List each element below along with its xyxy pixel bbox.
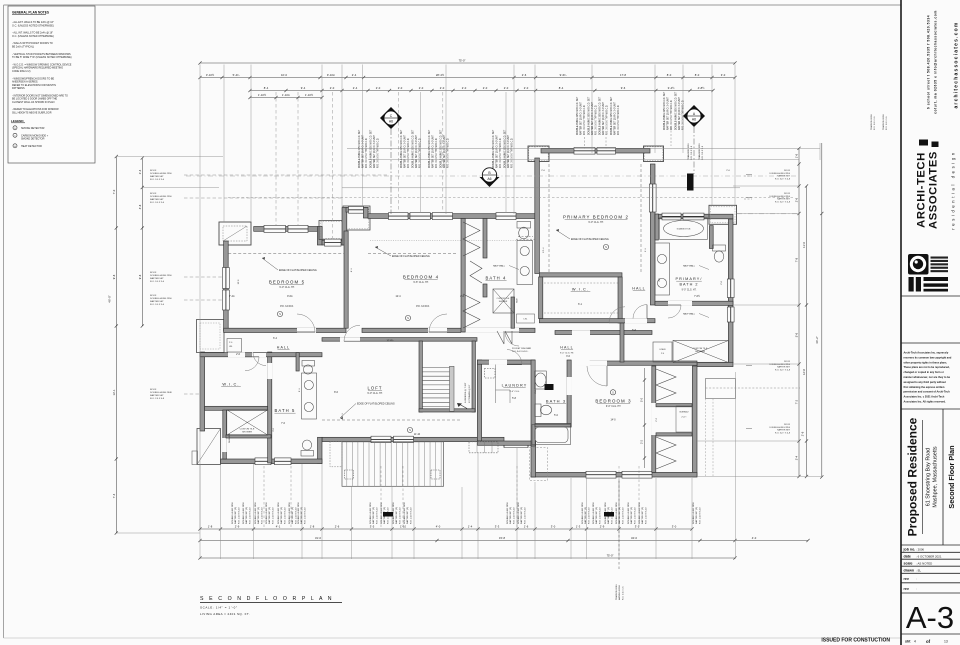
- window: [275, 458, 292, 465]
- bedroom 5 west wall: [224, 241, 229, 331]
- bath5/wic south wall: [221, 459, 323, 464]
- hall south / laundry north wall: [477, 360, 535, 364]
- svg-text:3'-0: 3'-0: [721, 73, 726, 77]
- svg-text:2'-0: 2'-0: [330, 86, 335, 90]
- svg-text:POCKET 3050 PAIR: POCKET 3050 PAIR: [512, 347, 531, 350]
- svg-text:RAFTER SET (2) R.O. 3-0 UNIT: RAFTER SET (2) R.O. 3-0 UNIT: [579, 101, 582, 135]
- left dim line 2: [141, 158, 143, 326]
- svg-text:2'-6: 2'-6: [522, 73, 527, 77]
- closet shelf top: [656, 404, 692, 407]
- primary bath door: [668, 304, 681, 306]
- solid mark: [604, 512, 614, 517]
- svg-text:R.O. 3-0 X 5-0 TYP W.O.C.D.: R.O. 3-0 X 5-0 TYP W.O.C.D.: [500, 137, 502, 168]
- svg-text:2'-4: 2'-4: [352, 73, 357, 77]
- svg-text:9'-6¾: 9'-6¾: [560, 73, 567, 77]
- svg-text:HALL: HALL: [277, 346, 290, 350]
- svg-text:2'-0: 2'-0: [398, 86, 403, 90]
- bedroom 3 east wall: [692, 366, 697, 477]
- window: [662, 213, 681, 220]
- svg-text:9'-6" CLG. HT.: 9'-6" CLG. HT.: [413, 281, 429, 284]
- wic east wall: [618, 277, 622, 323]
- svg-text:LEGEND: LEGEND: [11, 119, 24, 123]
- svg-text:S E C O N D F L O O R P L: S E C O N D F L O O R P L A N: [200, 596, 334, 602]
- svg-text:12'-8: 12'-8: [802, 369, 806, 375]
- svg-text:DOUBLE-HUNG 2950 W.O.C.D. SET: DOUBLE-HUNG 2950 W.O.C.D. SET: [429, 129, 431, 168]
- svg-text:2'-0: 2'-0: [504, 86, 509, 90]
- svg-text:drawn: drawn: [904, 569, 915, 573]
- svg-text:ROOF: ROOF: [150, 295, 157, 297]
- svg-text:RAFTER SET (2): RAFTER SET (2): [584, 507, 587, 524]
- svg-text:2'-0: 2'-0: [462, 86, 467, 90]
- solid mark: [383, 512, 393, 517]
- svg-text:EDGE OF FLAT/SLOPED CEILING: EDGE OF FLAT/SLOPED CEILING: [392, 255, 430, 258]
- svg-text:A-3: A-3: [906, 600, 954, 635]
- primary bath toilet: [713, 245, 726, 251]
- bedroom 5 door: [297, 331, 315, 333]
- window: [496, 213, 516, 220]
- step wall near door: [531, 441, 536, 477]
- svg-text:BEDROOM 5: BEDROOM 5: [269, 280, 305, 285]
- svg-text:1'-3: 1'-3: [576, 525, 581, 529]
- wic north wall: [539, 273, 622, 277]
- wall: [346, 208, 368, 213]
- window: [371, 436, 391, 443]
- ceiling edge dashed lines: [228, 253, 344, 255]
- svg-text:DOUBLE-HUNG 2850: DOUBLE-HUNG 2850: [582, 502, 584, 524]
- svg-text:ARCHI-TECH: ARCHI-TECH: [916, 152, 928, 228]
- svg-text:3'-5: 3'-5: [370, 525, 375, 529]
- east exterior wall: [728, 219, 733, 363]
- svg-text:9'-8: 9'-8: [138, 274, 142, 279]
- svg-text:R.O. 3-0 X 5-0: R.O. 3-0 X 5-0: [150, 304, 165, 306]
- svg-text:R.O. 2-0 X 1-6: R.O. 2-0 X 1-6: [622, 586, 624, 600]
- svg-text:7'-4¼: 7'-4¼: [229, 295, 235, 298]
- bottom dim line 2: [200, 540, 808, 542]
- bedroom3 closet wall: [652, 366, 656, 472]
- svg-text:DOUBLE-HUNG 2850: DOUBLE-HUNG 2850: [628, 502, 630, 524]
- deck right landing: [469, 442, 498, 453]
- bath4 closet wall upper: [483, 219, 487, 259]
- svg-text:DOUBLE-HUNG 2850: DOUBLE-HUNG 2850: [381, 502, 383, 524]
- svg-text:11'-10: 11'-10: [414, 434, 421, 436]
- svg-text:9'-10¼: 9'-10¼: [327, 73, 336, 77]
- window: [223, 268, 230, 289]
- svg-text:LIN.: LIN.: [229, 346, 233, 348]
- double door V marks at hall: [497, 331, 504, 344]
- laundry washer dryer: [485, 369, 496, 379]
- svg-text:architechassociates.com: architechassociates.com: [954, 21, 960, 108]
- svg-text:Archi-Tech Associates Inc. exp: Archi-Tech Associates Inc. expressly: [904, 351, 949, 355]
- svg-text:1'-6: 1'-6: [524, 525, 529, 529]
- bedroom 3 door: [606, 366, 608, 386]
- solid chimney mark: [687, 174, 694, 191]
- primary bedroom west wall: [535, 158, 540, 274]
- svg-text:5'-6: 5'-6: [795, 332, 799, 337]
- svg-text:: AS NOTED: : AS NOTED: [916, 562, 932, 566]
- wc nook wall: [709, 226, 713, 249]
- bath5 west wall: [268, 352, 272, 463]
- svg-text:RAFTER SET (2): RAFTER SET (2): [245, 507, 248, 524]
- window: [255, 458, 271, 465]
- svg-text:BATH 3: BATH 3: [546, 399, 566, 404]
- svg-text:RAFTER SET (2): RAFTER SET (2): [257, 507, 260, 524]
- svg-text:SHOWER: SHOWER: [499, 301, 508, 303]
- svg-text:14'-0: 14'-0: [610, 420, 616, 422]
- svg-text:ROOF: ROOF: [150, 170, 157, 172]
- laundry west wall: [477, 360, 481, 441]
- bath3 sink: [535, 373, 546, 387]
- svg-text:2'-6: 2'-6: [801, 431, 805, 436]
- svg-text:RAFTER SET (2): RAFTER SET (2): [520, 507, 523, 524]
- window: [683, 213, 704, 220]
- svg-text:1'-8: 1'-8: [310, 525, 315, 529]
- svg-text:ROOF: ROOF: [150, 389, 157, 391]
- primary bath south wall: [655, 301, 733, 305]
- svg-text:DOUBLE-HUNG 2950 W.O.C.D. SET: DOUBLE-HUNG 2950 W.O.C.D. SET: [589, 96, 591, 135]
- svg-text:R.O. 3-0 X 5-0 TYP W.O.C.D.: R.O. 3-0 X 5-0 TYP W.O.C.D.: [606, 104, 608, 135]
- window: [264, 225, 286, 232]
- svg-text:O.C. (UNLESS NOTED OTHERWISE): O.C. (UNLESS NOTED OTHERWISE): [12, 24, 54, 27]
- svg-text:13: 13: [944, 640, 948, 644]
- svg-text:8'-0: 8'-0: [667, 73, 672, 77]
- svg-text:Proposed Residence: Proposed Residence: [906, 417, 920, 536]
- svg-text:RAFTER SET: RAFTER SET: [150, 277, 164, 280]
- svg-text:DOUBLE-HUNG 2850: DOUBLE-HUNG 2850: [266, 502, 268, 524]
- laundry door: [507, 364, 522, 366]
- svg-text:BATH 2: BATH 2: [679, 283, 698, 287]
- svg-text:9'-0" CLG.: 9'-0" CLG.: [509, 391, 519, 393]
- svg-text:RAFTER SET (2) R.O. 3-0 UNIT: RAFTER SET (2) R.O. 3-0 UNIT: [415, 134, 418, 168]
- svg-text:DOUBLE-HUNG 2950 W.O.C.D. SET: DOUBLE-HUNG 2950 W.O.C.D. SET: [505, 129, 507, 168]
- primary bedroom north wall: [541, 149, 650, 153]
- svg-text:PRIMARY/: PRIMARY/: [675, 277, 702, 281]
- svg-text:ISSUED FOR CONSTUCTION: ISSUED FOR CONSTUCTION: [821, 638, 890, 644]
- svg-text:28'-4½: 28'-4½: [436, 73, 445, 77]
- svg-text:These plans are not to be repr: These plans are not to be reproduced,: [904, 365, 950, 369]
- svg-text:EDGE OF FLAT/SLOPED CEILING: EDGE OF FLAT/SLOPED CEILING: [571, 238, 609, 241]
- svg-text:ROOF: ROOF: [784, 361, 791, 363]
- svg-text:DOUBLE-HUNG 2850: DOUBLE-HUNG 2850: [769, 173, 790, 175]
- svg-text:4'-8: 4'-8: [138, 204, 142, 209]
- wall: [342, 208, 347, 246]
- tub north wall: [535, 424, 571, 427]
- svg-text:EDGE OF FLAT/SLOPED CEILING: EDGE OF FLAT/SLOPED CEILING: [357, 403, 395, 406]
- svg-text:RAFTER SET (2): RAFTER SET (2): [291, 507, 294, 524]
- title block: [901, 10, 960, 644]
- svg-text:DOUBLE-HUNG 2950 W.O.C.D. SET: DOUBLE-HUNG 2950 W.O.C.D. SET: [371, 129, 373, 168]
- svg-text:BEDROOM 4: BEDROOM 4: [403, 275, 439, 280]
- svg-text:1'-10: 1'-10: [400, 525, 406, 529]
- bath3 toilet: [535, 404, 541, 417]
- bath5 toilet bottom: [301, 451, 314, 457]
- svg-text:date: date: [904, 555, 911, 559]
- primary bedroom door: [609, 322, 625, 324]
- svg-text:2'-6: 2'-6: [795, 197, 799, 202]
- svg-text:DOUBLE-HUNG 2950 W.O.C.D. SET: DOUBLE-HUNG 2950 W.O.C.D. SET: [611, 96, 613, 135]
- bath5 toilet top: [302, 361, 315, 367]
- svg-text:other property rights in these: other property rights in these plans.: [904, 360, 948, 364]
- svg-text:R.O. 3-0 X 5-0 TYP W.O.C.D.: R.O. 3-0 X 5-0 TYP W.O.C.D.: [366, 137, 368, 168]
- bath2 custom tile shower: [673, 341, 729, 363]
- svg-text:1'-8: 1'-8: [208, 525, 213, 529]
- svg-text:14 RISERS @ 7-3/4": 14 RISERS @ 7-3/4": [465, 382, 467, 403]
- svg-text:LOFT: LOFT: [367, 386, 382, 391]
- svg-text:RAFTER SET (2) R.O. 3-0 UNIT: RAFTER SET (2) R.O. 3-0 UNIT: [403, 134, 406, 168]
- svg-text:DOUBLE-HUNG 2950 W.O.C.D. SET: DOUBLE-HUNG 2950 W.O.C.D. SET: [493, 129, 495, 168]
- svg-text:SHOWER: SHOWER: [695, 351, 705, 353]
- svg-text:BUREAU: BUREAU: [680, 411, 689, 414]
- svg-text:9'-0" CLG. HT.: 9'-0" CLG. HT.: [682, 290, 697, 292]
- svg-text:rev: rev: [904, 577, 909, 581]
- svg-text:PRIMARY BEDROOM 2: PRIMARY BEDROOM 2: [563, 215, 629, 220]
- svg-text:A6: A6: [692, 118, 696, 122]
- svg-text:SHELVES: SHELVES: [229, 433, 231, 443]
- svg-text:AWNING 30550: AWNING 30550: [618, 584, 621, 600]
- primary bedroom tower: [528, 146, 549, 162]
- svg-text:R.O. 2-10 X 5-10: R.O. 2-10 X 5-10: [410, 507, 412, 524]
- bedroom 4 door: [429, 331, 447, 333]
- svg-text:R.O. 3-0 X 5-0 TYP W.O.C.D.: R.O. 3-0 X 5-0 TYP W.O.C.D.: [618, 104, 620, 135]
- wic south wall: [539, 319, 655, 323]
- svg-text:46'-0": 46'-0": [108, 295, 112, 303]
- svg-text:RAFTER SET: RAFTER SET: [150, 300, 164, 303]
- svg-text:EDGE OF FLAT/SLOPED CEILING: EDGE OF FLAT/SLOPED CEILING: [279, 269, 317, 272]
- svg-text:R.O. 2-10 X 5-10: R.O. 2-10 X 5-10: [376, 507, 378, 524]
- tower west post box: [343, 206, 370, 230]
- svg-text:BEDROOM 3: BEDROOM 3: [595, 399, 631, 404]
- svg-text:R.O. 2-10 X 5-10: R.O. 2-10 X 5-10: [588, 507, 590, 524]
- svg-text:R.O. 3-0 X 5-0 TYP W.O.C.D.: R.O. 3-0 X 5-0 TYP W.O.C.D.: [682, 99, 684, 130]
- svg-text:DOUBLE-HUNG 2850: DOUBLE-HUNG 2850: [639, 502, 641, 524]
- wic shelf: [544, 282, 618, 284]
- svg-text:3'-3: 3'-3: [495, 525, 500, 529]
- bath3 tub: [532, 425, 571, 445]
- hall east wall: [620, 323, 624, 362]
- svg-text:R.O. 3-0 X 5-0 TYP W.O.C.D.: R.O. 3-0 X 5-0 TYP W.O.C.D.: [671, 99, 673, 130]
- window: [586, 471, 616, 478]
- bottom dim line 1: [200, 528, 692, 530]
- svg-text:3'-2: 3'-2: [641, 439, 644, 444]
- svg-text:9'-0" CLG. HT.: 9'-0" CLG. HT.: [560, 353, 574, 355]
- svg-text:7'-4: 7'-4: [112, 493, 116, 498]
- porch dashed outline: [530, 448, 548, 481]
- svg-text:DOUBLE-HUNG 2850: DOUBLE-HUNG 2850: [393, 502, 395, 524]
- svg-text:7'-0: 7'-0: [112, 189, 116, 194]
- svg-text:ROOF: ROOF: [150, 272, 157, 274]
- left dim overall: [115, 157, 117, 534]
- svg-text:LIVING AREA = 2401 SQ. FT.: LIVING AREA = 2401 SQ. FT.: [200, 612, 250, 616]
- svg-text:R.O. 2-10 X 5-10: R.O. 2-10 X 5-10: [284, 507, 286, 524]
- svg-text:2'-0: 2'-0: [376, 86, 381, 90]
- extension lines top: [199, 65, 201, 531]
- primary bath vanity + sinks: [655, 243, 670, 295]
- svg-text:RAFTER SET (2) R.O. 3-0 UNIT: RAFTER SET (2) R.O. 3-0 UNIT: [613, 101, 616, 135]
- svg-text:first obtaining the express wr: first obtaining the express written: [904, 385, 945, 389]
- svg-text:34'-0: 34'-0: [631, 536, 637, 540]
- svg-text:permission and consent of Arch: permission and consent of Archi-Tech: [904, 390, 951, 394]
- svg-text:R.O. 2-10 X 5-10: R.O. 2-10 X 5-10: [249, 507, 251, 524]
- svg-text:R.O. 3-0 X 5-0 TYP W.O.C.D.: R.O. 3-0 X 5-0 TYP W.O.C.D.: [595, 104, 597, 135]
- right dim line 2: [806, 186, 808, 477]
- stair direction arrow: [459, 404, 467, 409]
- svg-text:CODE R312.2.2): CODE R312.2.2): [12, 70, 31, 73]
- svg-text:4: 4: [914, 640, 916, 644]
- svg-text:3'-0: 3'-0: [551, 525, 556, 529]
- svg-text:11'-0: 11'-0: [802, 242, 806, 248]
- svg-text:reserves its common law copyri: reserves its common law copyright and: [904, 355, 952, 359]
- laundry/bath3 divider: [531, 360, 535, 446]
- linen closet: [227, 339, 242, 353]
- svg-text:RAFTER SET (2) R.O. 3-0 UNIT: RAFTER SET (2) R.O. 3-0 UNIT: [602, 101, 605, 135]
- wall: [363, 208, 368, 219]
- window: [223, 290, 230, 310]
- svg-text:DOUBLE-HUNG 2950 W.O.C.D. SET: DOUBLE-HUNG 2950 W.O.C.D. SET: [413, 129, 415, 168]
- logo bottom bars: [909, 277, 914, 292]
- project/sheet-name divider: [942, 409, 944, 545]
- svg-text:R.O. 3-0 X 5-0: R.O. 3-0 X 5-0: [150, 202, 165, 204]
- svg-text:RAFTER SET (2): RAFTER SET (2): [509, 507, 512, 524]
- svg-text:RAFTER SET (2): RAFTER SET (2): [280, 507, 283, 524]
- svg-text:9'-8: 9'-8: [112, 274, 116, 279]
- svg-text:R.O. 2-10 X 5-10: R.O. 2-10 X 5-10: [261, 507, 263, 524]
- shower south wall: [226, 435, 271, 438]
- svg-text:R.O. 2-10 X 5-10: R.O. 2-10 X 5-10: [645, 507, 647, 524]
- linen side wall: [296, 353, 299, 371]
- step wall: [317, 227, 322, 246]
- svg-text:2'-0: 2'-0: [440, 86, 445, 90]
- svg-text:75'-0": 75'-0": [607, 554, 614, 558]
- svg-text:1'-10½: 1'-10½: [258, 93, 267, 97]
- svg-text:DOUBLE-HUNG 2950: DOUBLE-HUNG 2950: [150, 196, 172, 198]
- extension lines bottom: [199, 465, 201, 559]
- svg-text:RAFTER SET: RAFTER SET: [777, 198, 791, 201]
- svg-text:RAFTER SET (2): RAFTER SET (2): [630, 507, 633, 524]
- svg-text:Associates Inc. All rights re: Associates Inc. All rights reserved.: [904, 400, 947, 404]
- bedroom 5 north wall: [254, 227, 322, 232]
- svg-text:9'-0" CLG. HT.: 9'-0" CLG. HT.: [588, 221, 604, 224]
- svg-text:R.O. 2-10 X 5-10: R.O. 2-10 X 5-10: [622, 507, 624, 524]
- svg-text:RAFTER SET (2) R.O. 3-0 UNIT: RAFTER SET (2) R.O. 3-0 UNIT: [666, 96, 669, 130]
- west linen bump: [197, 320, 225, 353]
- window: [389, 213, 409, 220]
- svg-text:RAFTER SET (2) R.O. 3-0 UNIT: RAFTER SET (2) R.O. 3-0 UNIT: [591, 101, 594, 135]
- svg-text:DOUBLE-HUNG 2950 W.O.C.D. SET: DOUBLE-HUNG 2950 W.O.C.D. SET: [441, 129, 443, 168]
- deck posts: [345, 470, 354, 479]
- bedroom3 interior dim: [644, 368, 646, 468]
- svg-text:R.O. 2-10 X 5-10: R.O. 2-10 X 5-10: [524, 507, 526, 524]
- svg-text:rev: rev: [904, 587, 909, 591]
- svg-text:8'-4: 8'-4: [559, 86, 564, 90]
- svg-text:8'-4: 8'-4: [264, 86, 269, 90]
- svg-text:7'-2: 7'-2: [795, 399, 799, 404]
- svg-text:R.O. 3-0 X 1-6: R.O. 3-0 X 1-6: [874, 116, 876, 130]
- svg-text:61 Shoestring Bay Road: 61 Shoestring Bay Road: [926, 448, 932, 506]
- logo square after ASSOCIATES: [932, 142, 939, 148]
- svg-text:DOUBLE-HUNG 2950 W.O.C.D. SET: DOUBLE-HUNG 2950 W.O.C.D. SET: [676, 91, 678, 130]
- svg-text:DOUBLE-HUNG 2950 W.O.C.D. SET: DOUBLE-HUNG 2950 W.O.C.D. SET: [600, 96, 602, 135]
- svg-text:4'-8½: 4'-8½: [698, 86, 705, 90]
- svg-text:RAFTER SET: RAFTER SET: [777, 366, 791, 369]
- svg-text:RAFTER SET: RAFTER SET: [150, 175, 164, 178]
- svg-text:DOUBLE-HUNG 2848: DOUBLE-HUNG 2848: [150, 392, 172, 394]
- svg-text:BE 2x6's (TYPICAL): BE 2x6's (TYPICAL): [12, 45, 34, 48]
- roof lines: [347, 147, 733, 149]
- svg-text:of: of: [926, 639, 931, 644]
- svg-text:4'-1: 4'-1: [276, 525, 281, 529]
- svg-text:5'-4¾: 5'-4¾: [233, 73, 240, 77]
- svg-text:4'-0: 4'-0: [436, 525, 441, 529]
- svg-text:DOUBLE-HUNG 2850: DOUBLE-HUNG 2850: [518, 502, 520, 524]
- svg-text:: 2006: : 2006: [916, 548, 924, 552]
- window: [727, 279, 734, 298]
- linen closet by shower: [653, 342, 672, 362]
- bath3/bedroom3 divider: [567, 360, 571, 427]
- svg-text:R.O. 2-10 X 5-10: R.O. 2-10 X 5-10: [238, 507, 240, 524]
- window: [410, 213, 430, 220]
- bifold closet doors: [470, 261, 482, 283]
- svg-text:DOUBLE-HUNG 2850: DOUBLE-HUNG 2850: [243, 502, 245, 524]
- svg-text:O.C. (UNLESS NOTED OTHERWISE): O.C. (UNLESS NOTED OTHERWISE): [12, 35, 54, 38]
- svg-text:RAFTER SET (2): RAFTER SET (2): [641, 507, 644, 524]
- svg-text:2'-0: 2'-0: [524, 86, 529, 90]
- svg-text:RAFTER SET: RAFTER SET: [150, 198, 164, 201]
- svg-text:sht: sht: [905, 640, 911, 644]
- svg-text:S: S: [407, 316, 409, 320]
- svg-text:1'-10¾: 1'-10¾: [282, 93, 291, 97]
- svg-text:RAFTER SET (2): RAFTER SET (2): [618, 507, 621, 524]
- svg-text:R.O. 3-0 X 1-6: R.O. 3-0 X 1-6: [886, 116, 888, 130]
- deck boards: [342, 442, 444, 487]
- svg-text:7'-8: 7'-8: [795, 257, 799, 262]
- svg-text:RAFTER SET (2): RAFTER SET (2): [406, 507, 409, 524]
- svg-text:R.O. 3-0 X 5-0: R.O. 3-0 X 5-0: [150, 179, 165, 181]
- wic5 door: [245, 356, 259, 358]
- svg-text:DOUBLE-HUNG 2850: DOUBLE-HUNG 2850: [255, 502, 257, 524]
- svg-text:6 school street t 508.420.: 6 school street t 508.420.5335 f 508.420…: [927, 15, 931, 109]
- right dim line 3: [821, 143, 823, 477]
- sheet border frame: [4, 4, 902, 6]
- bath4 vanity + sinks: [517, 241, 533, 285]
- svg-text:RAFTER SET (2): RAFTER SET (2): [395, 507, 398, 524]
- svg-text:RAFTER SET (2) R.O. 3-0 UNIT: RAFTER SET (2) R.O. 3-0 UNIT: [507, 134, 510, 168]
- svg-text:changed or copied in any form: changed or copied in any form or: [904, 370, 944, 374]
- svg-text:RAFTER SET (2): RAFTER SET (2): [300, 507, 303, 524]
- svg-text:R.O. 3-0 X 1-6: R.O. 3-0 X 1-6: [702, 145, 704, 160]
- svg-text:R.O. 2-10 X 5-10: R.O. 2-10 X 5-10: [634, 507, 636, 524]
- stair west wall: [419, 341, 422, 412]
- svg-text:DOUBLE-HUNG 2850: DOUBLE-HUNG 2850: [232, 502, 234, 524]
- svg-text:8'-0: 8'-0: [695, 73, 700, 77]
- svg-text:R.O. 2-10 X 5-10: R.O. 2-10 X 5-10: [513, 507, 515, 524]
- section marker flag: [480, 177, 500, 187]
- solid mark stair: [545, 384, 554, 390]
- svg-text:HALF WALL: HALF WALL: [683, 265, 696, 268]
- ATA logo: [908, 254, 929, 275]
- bath4 toilet: [517, 222, 531, 229]
- svg-text:RAFTER SET (2): RAFTER SET (2): [595, 507, 598, 524]
- window: [597, 148, 616, 155]
- door to deck w/ transom: [504, 444, 528, 448]
- svg-text:residential design: residential design: [951, 150, 956, 229]
- svg-text:DOUBLE-HUNG 2850: DOUBLE-HUNG 2850: [693, 502, 695, 524]
- svg-text:SCALE: 1/4" = 1'-0": SCALE: 1/4" = 1'-0": [200, 606, 238, 610]
- stair east wall: [472, 341, 475, 412]
- svg-text:TRANSOM 3050: TRANSOM 3050: [870, 114, 873, 130]
- tub nook wall: [655, 214, 658, 240]
- svg-text:SMOKE DETECTOR: SMOKE DETECTOR: [21, 127, 45, 130]
- svg-text:LINEN: LINEN: [660, 349, 666, 351]
- svg-text:: EL: : EL: [916, 569, 922, 573]
